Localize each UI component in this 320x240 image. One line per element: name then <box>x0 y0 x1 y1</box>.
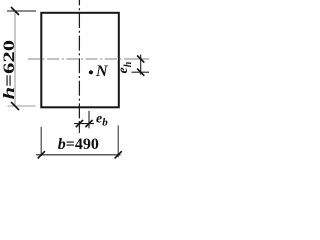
dimension h: bottom extension line <box>8 105 36 107</box>
vertical centerline <box>78 0 80 128</box>
point N dot <box>89 70 93 74</box>
dimension b: right extension line <box>117 126 119 158</box>
dimension b: dimension line <box>36 154 121 156</box>
dimension e_h: top tick <box>137 55 144 62</box>
dimension b: right tick <box>115 151 122 158</box>
dimension h: top extension line <box>7 10 36 12</box>
dimension e_h: dimension line <box>140 55 142 75</box>
dimension h: top tick <box>11 7 19 15</box>
section outline (rectangle b x h) <box>41 13 119 108</box>
dimension h: dimension line <box>14 11 16 106</box>
horizontal centerline extension right (e_h top extension) <box>131 58 149 60</box>
dimension e_h: bottom tick <box>137 69 144 76</box>
dimension e_b: left tick <box>76 120 83 127</box>
svg-text:h=620: h=620 <box>0 40 18 100</box>
dimension e_b: dimension line <box>74 123 94 125</box>
dimension e_h: bottom extension line <box>132 71 150 73</box>
svg-text:N: N <box>95 63 109 80</box>
horizontal centerline (gray dash-dot) <box>28 58 131 60</box>
dimension b: left tick <box>38 151 45 158</box>
dimension e_b: left extension line (centerline continuation) <box>78 121 80 133</box>
dimension e_b: right extension line <box>88 111 90 129</box>
svg-text:b=490: b=490 <box>58 136 99 153</box>
dimension b: left extension line <box>40 127 42 156</box>
dimension e_b: right tick <box>85 120 92 127</box>
dimension h: bottom tick <box>11 102 19 110</box>
